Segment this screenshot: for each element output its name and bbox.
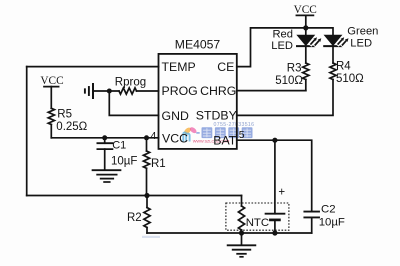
node: junction Rprog/ground/GND pin <box>107 89 112 94</box>
node: VCC/LED junction <box>303 25 308 30</box>
watermark CJK characters <box>202 127 253 138</box>
resistor R3 <box>303 63 309 80</box>
thermistor NTC <box>238 206 244 230</box>
resistor R1 <box>146 138 148 151</box>
watermark smudge bottom <box>142 236 160 238</box>
svg-text:C1: C1 <box>112 139 126 151</box>
wire: VCC/C1/R1 line into IC pin 4 <box>51 137 158 139</box>
svg-text:Rprog: Rprog <box>115 76 146 88</box>
svg-text:VCC: VCC <box>162 131 188 145</box>
wire: TEMP pin to left rail <box>27 66 159 68</box>
svg-text:Red: Red <box>272 28 293 40</box>
svg-text:0755-27033516: 0755-27033516 <box>214 122 255 128</box>
node: R1 top junction (pin4 line) <box>144 135 149 140</box>
battery BT1 <box>274 140 276 214</box>
svg-text:LED: LED <box>271 40 293 52</box>
svg-text:STDBY: STDBY <box>196 109 237 123</box>
wire: bottom ground/battery line <box>147 232 312 234</box>
battery pack dashed box <box>226 203 289 230</box>
LED D2 emission arrows <box>337 37 349 47</box>
LED D1 emission arrows <box>310 37 322 47</box>
node: battery junction on BAT wire <box>272 138 277 143</box>
svg-text:510Ω: 510Ω <box>336 73 364 85</box>
svg-text:R1: R1 <box>151 158 166 170</box>
resistor Rprog <box>119 88 137 94</box>
node: C1 junction on VCC line <box>102 135 107 140</box>
wire: divider line down into NTC <box>241 196 243 207</box>
wire: left rail from TEMP line down to divider line <box>26 67 28 196</box>
IC U1 ME4057 body fill <box>159 54 237 149</box>
svg-text:510Ω: 510Ω <box>275 75 303 87</box>
resistor R5 <box>48 108 54 124</box>
LED D2 Green LED <box>325 35 342 45</box>
svg-text:CE: CE <box>217 60 234 74</box>
svg-text:NTC: NTC <box>246 217 269 229</box>
svg-text:VCC: VCC <box>40 75 63 87</box>
wire: CE pin to VCC node <box>237 28 306 67</box>
svg-text:0.25Ω: 0.25Ω <box>56 121 87 133</box>
resistor R4 <box>330 63 336 80</box>
IC U1: ME4057 charger, body outline <box>159 54 237 149</box>
svg-text:GND: GND <box>162 109 189 123</box>
svg-text:C2: C2 <box>321 203 336 215</box>
svg-text:+: + <box>278 186 285 198</box>
wire: VCC node to green LED <box>306 28 333 35</box>
capacitor C1 <box>104 138 106 143</box>
svg-text:5: 5 <box>239 129 245 141</box>
svg-text:CHRG: CHRG <box>200 84 236 98</box>
svg-text:VCC: VCC <box>294 4 317 16</box>
svg-text:ME4057: ME4057 <box>175 37 221 51</box>
svg-text:R3: R3 <box>287 63 302 75</box>
svg-text:BAT: BAT <box>213 133 236 147</box>
node: NTC/ground junction <box>239 230 244 235</box>
wire: R4 to STDBY pin <box>237 80 333 116</box>
wire: BAT pin to battery and C2 <box>237 140 312 211</box>
LED D1 Red LED <box>305 28 307 35</box>
ground (below C1) <box>93 169 121 171</box>
watermark logo <box>183 126 200 141</box>
svg-text:10µF: 10µF <box>319 216 345 228</box>
wire: R3 to CHRG pin <box>237 90 306 92</box>
svg-text:TEMP: TEMP <box>162 60 196 74</box>
svg-text:R4: R4 <box>336 61 351 73</box>
svg-text:Green: Green <box>347 26 378 38</box>
svg-text:R2: R2 <box>127 212 142 224</box>
svg-text:R5: R5 <box>57 108 72 120</box>
node: battery negative junction <box>272 230 277 235</box>
svg-text:10µF: 10µF <box>111 156 137 168</box>
wire: junction down to GND pin <box>109 91 158 115</box>
ground (signal ground at PROG/GND, sideways) <box>92 84 94 98</box>
ground (main, below NTC) <box>241 233 243 245</box>
svg-text:LED: LED <box>350 38 372 50</box>
wire: divider node horizontal run (TEMP node) <box>27 195 242 197</box>
resistor R2 <box>146 196 148 208</box>
capacitor C2 <box>304 211 319 213</box>
node: divider junction R1/R2 <box>144 193 149 198</box>
svg-text:4: 4 <box>150 130 156 142</box>
svg-text:PROG: PROG <box>162 84 198 98</box>
